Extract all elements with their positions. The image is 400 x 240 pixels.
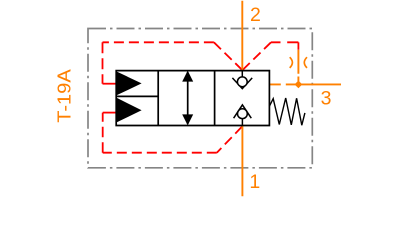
svg-text:1: 1 bbox=[249, 171, 260, 193]
svg-text:T-19A: T-19A bbox=[54, 69, 74, 123]
svg-text:3: 3 bbox=[321, 88, 332, 110]
svg-text:2: 2 bbox=[250, 4, 261, 26]
